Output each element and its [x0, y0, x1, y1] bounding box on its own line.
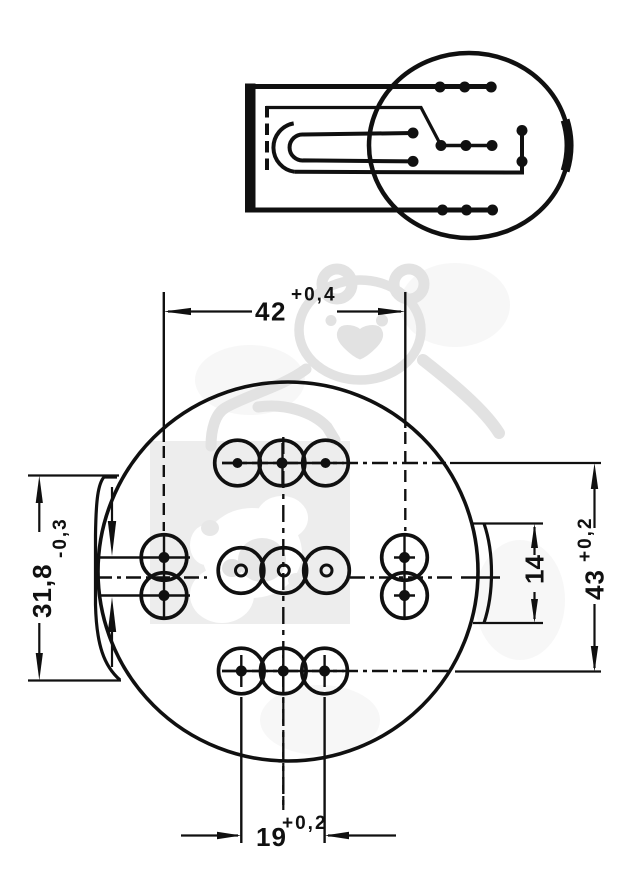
faint scan tint patches	[195, 263, 565, 755]
left pair horizontal line lower	[100, 594, 190, 596]
right pair vertical: 42 extension + dashes + crosshair	[404, 292, 406, 428]
hole left-pair lower	[141, 573, 187, 619]
top row centerline dashdot	[222, 462, 446, 464]
hole mid-left	[218, 548, 264, 594]
svg-text:43: 43	[580, 569, 610, 600]
hole top-right	[303, 440, 349, 486]
pad dots top row	[435, 82, 446, 93]
horizontal centerline through right tab	[461, 576, 500, 578]
bear snout	[337, 325, 383, 360]
svg-text:-0,3: -0,3	[50, 517, 71, 558]
inner outline top line	[266, 108, 441, 146]
hole mid-right	[304, 548, 350, 594]
dimension 43 +0,2 (far right, rotated)	[593, 487, 595, 668]
plate left thick edge	[245, 84, 256, 213]
hole left-pair upper	[141, 535, 187, 581]
right pair horizontal ticks	[394, 556, 415, 558]
hole bottom-left	[219, 648, 265, 694]
middle row holes	[218, 548, 349, 594]
bottom row extension solid to 43 dim	[455, 670, 601, 672]
bear left eye	[326, 315, 337, 326]
vertical centerline of flange	[282, 437, 284, 810]
left pair horizontal line upper	[100, 556, 190, 558]
bottom row dots	[236, 666, 247, 677]
hole right-pair upper	[382, 535, 428, 581]
hole top-left	[215, 440, 261, 486]
svg-text:42: 42	[255, 297, 287, 327]
top row extension solid to 43 dim	[450, 462, 601, 464]
bear right shoulder	[423, 360, 499, 433]
hole bottom-mid	[261, 648, 307, 694]
svg-text:31,8: 31,8	[27, 563, 57, 618]
watermark bear	[211, 269, 499, 446]
right tab outline	[484, 524, 492, 624]
dimension 42 +0,4	[168, 310, 401, 312]
flange circle	[98, 382, 478, 761]
top row holes	[215, 440, 349, 486]
bottom row centerline dashdot	[222, 670, 450, 672]
svg-text:14: 14	[520, 555, 550, 584]
hole bottom-right	[302, 648, 348, 694]
top row hole dots	[233, 458, 243, 468]
right hole pair	[382, 535, 428, 619]
mid trace line in magnifier	[441, 144, 492, 147]
horizontal centerline right part	[350, 576, 457, 578]
left pair dots	[159, 552, 170, 563]
left hole pair	[141, 535, 187, 619]
hairpin trace top	[290, 133, 413, 161]
unlabeled pair-spacing arrows (left)	[111, 487, 113, 667]
right tab top closing line / 14 extension top	[473, 522, 543, 524]
bear right eye	[376, 315, 388, 327]
pad dots hairpin ends	[408, 128, 419, 139]
top row hole horizontal line	[222, 462, 344, 464]
vertical hole-pair centerlines	[164, 292, 405, 843]
extension top	[28, 474, 119, 476]
heater lower trace to right angle	[295, 126, 522, 173]
dim line segments	[38, 498, 40, 532]
bottom row horizontal line	[222, 670, 344, 672]
bottom row verticals	[240, 655, 242, 687]
inner outline dashed left edge	[265, 106, 269, 176]
right tab bottom closing line / 14 extension bottom	[473, 622, 543, 624]
top-mid vertical line	[281, 443, 283, 487]
pad dots right vertical pair	[517, 125, 528, 136]
left pair vertical: 42 extension + dashes + crosshair	[163, 292, 165, 442]
svg-text:+0,2: +0,2	[282, 813, 328, 834]
bear left ear	[322, 269, 352, 299]
svg-text:+0,2: +0,2	[575, 516, 596, 562]
bear right ear	[394, 269, 424, 299]
bottom 19 extensions	[240, 697, 242, 843]
plate top edge with pads	[247, 84, 492, 89]
bear leg stroke	[258, 406, 335, 440]
right pair dots	[399, 552, 410, 563]
heater outer arc	[273, 123, 294, 171]
dimension 19 +0,2 (bottom)	[181, 697, 396, 836]
pad dots bottom row	[437, 205, 448, 216]
magnifier rim tab bump	[565, 120, 569, 171]
extension bottom	[28, 679, 121, 681]
watermark splash (light gray field lower-left)	[150, 441, 350, 624]
pad dots mid row	[436, 140, 447, 151]
magnifier circle	[369, 53, 569, 238]
horizontal centerline left part	[97, 576, 207, 578]
hole right-pair lower	[382, 573, 428, 619]
left tab outline	[96, 477, 121, 680]
dimension 31,8 -0,3 (left, rotated)	[28, 476, 121, 681]
bear left arm	[211, 369, 306, 446]
centerlines	[97, 437, 601, 810]
svg-text:+0,4: +0,4	[291, 285, 337, 306]
bottom row holes	[219, 648, 348, 694]
hole top-mid	[259, 440, 305, 486]
mid row center rings	[236, 565, 247, 576]
plate bottom edge with pads	[247, 208, 493, 213]
hole mid-center	[261, 548, 307, 594]
dimension 14 (right tab, rotated)	[533, 527, 535, 619]
bear head	[299, 280, 421, 380]
